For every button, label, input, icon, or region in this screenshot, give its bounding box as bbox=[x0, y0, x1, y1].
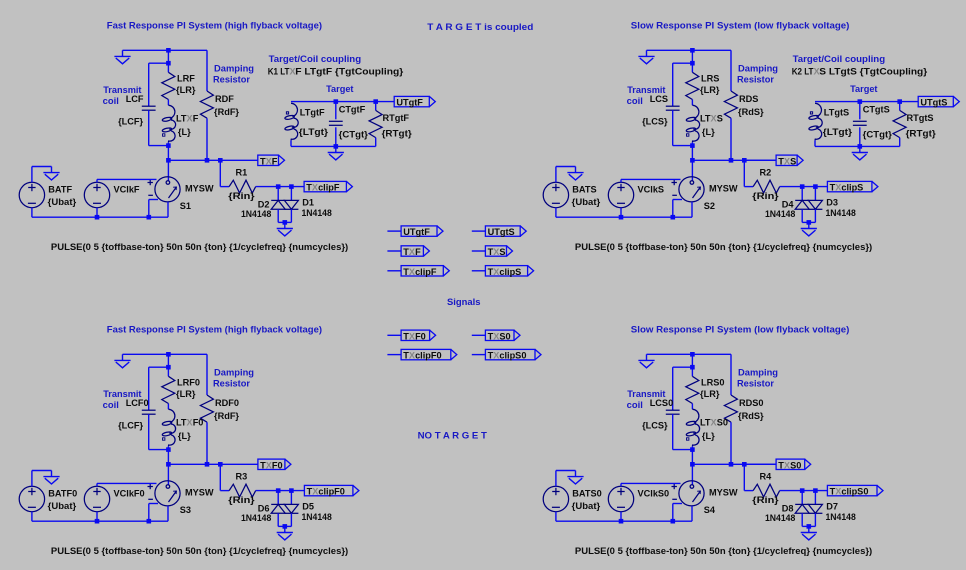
svg-text:S LTgtS {TgtCoupling}: S LTgtS {TgtCoupling} bbox=[819, 67, 927, 77]
svg-text:TXclipS0: TXclipS0 bbox=[488, 351, 527, 361]
net flag TXS bbox=[776, 155, 803, 165]
svg-text:K1 LT: K1 LT bbox=[268, 67, 290, 77]
wire bbox=[672, 110, 674, 145]
svg-text:Resistor: Resistor bbox=[737, 378, 774, 388]
svg-text:CTgtS: CTgtS bbox=[863, 104, 890, 114]
svg-text:RDF0: RDF0 bbox=[215, 398, 239, 408]
resistor R2 bbox=[753, 180, 780, 193]
svg-text:MYSW: MYSW bbox=[709, 183, 738, 193]
wire bbox=[556, 470, 576, 472]
node top junction bbox=[166, 352, 171, 357]
wire (target bottom) bbox=[291, 145, 376, 147]
svg-text:K2 LT: K2 LT bbox=[792, 67, 814, 77]
wire (target top) bbox=[291, 101, 376, 103]
inductor LTgtS bbox=[815, 103, 822, 140]
svg-text:D7: D7 bbox=[826, 502, 838, 512]
svg-text:Target: Target bbox=[326, 84, 353, 94]
svg-text:CTgtF: CTgtF bbox=[339, 104, 366, 114]
svg-text:UTgtF: UTgtF bbox=[396, 98, 423, 108]
junction bbox=[800, 488, 805, 493]
wire bbox=[691, 50, 693, 72]
voltage source BATF bbox=[19, 182, 44, 207]
wire bbox=[730, 354, 732, 395]
wire bbox=[96, 483, 98, 486]
wire bbox=[290, 491, 292, 505]
wire bbox=[899, 102, 901, 111]
resistor RDS bbox=[724, 91, 737, 118]
svg-text:1N4148: 1N4148 bbox=[302, 208, 332, 218]
inductor LTXF0 bbox=[168, 409, 175, 446]
svg-text:D8: D8 bbox=[782, 503, 794, 513]
wire bbox=[730, 422, 732, 464]
wire (switch control -) bbox=[149, 199, 158, 201]
junction bbox=[283, 524, 288, 529]
node top junction bbox=[690, 352, 695, 357]
svg-text:{RdF}: {RdF} bbox=[214, 411, 239, 421]
svg-text:{RdS}: {RdS} bbox=[738, 107, 764, 117]
junction bbox=[858, 99, 863, 104]
wire (tank output bus) bbox=[692, 463, 776, 465]
inductor LTXS0 bbox=[692, 409, 699, 446]
svg-text:{Rin}: {Rin} bbox=[752, 191, 779, 201]
svg-text:{Rin}: {Rin} bbox=[752, 495, 779, 505]
net flag UTgtF bbox=[394, 96, 435, 106]
wire bbox=[801, 491, 803, 505]
net flag TXF0 bbox=[258, 459, 291, 469]
resistor RTgtF bbox=[369, 110, 382, 137]
wire bbox=[555, 471, 557, 487]
wire to switch bbox=[167, 160, 169, 181]
svg-text:LTXS: LTXS bbox=[700, 114, 723, 124]
svg-text:1N4148: 1N4148 bbox=[241, 513, 271, 523]
junction bbox=[813, 488, 818, 493]
wire bbox=[206, 50, 208, 91]
svg-text:D4: D4 bbox=[782, 199, 795, 209]
svg-text:Target/Coil coupling: Target/Coil coupling bbox=[793, 54, 886, 64]
svg-text:LRS0: LRS0 bbox=[701, 377, 725, 387]
svg-text:TXclipF: TXclipF bbox=[403, 267, 437, 277]
wire bbox=[814, 187, 816, 201]
svg-text:MYSW: MYSW bbox=[709, 487, 738, 497]
svg-text:{LTgt}: {LTgt} bbox=[299, 127, 329, 137]
wire bbox=[148, 63, 150, 106]
ground (target) bbox=[852, 146, 868, 160]
junction bbox=[205, 462, 210, 467]
wire bbox=[673, 366, 693, 368]
svg-text:BATS0: BATS0 bbox=[572, 488, 601, 498]
wire bbox=[277, 187, 279, 201]
wire bbox=[31, 167, 33, 183]
svg-text:UTgtS: UTgtS bbox=[920, 98, 947, 108]
wire bbox=[859, 102, 861, 120]
resistor LRS bbox=[686, 72, 699, 99]
svg-text:TXF: TXF bbox=[403, 247, 421, 257]
svg-text:Target: Target bbox=[850, 84, 877, 94]
net flag TXS bbox=[472, 250, 486, 252]
wire (bottom bus) bbox=[32, 216, 168, 218]
resistor RDF0 bbox=[200, 395, 213, 422]
wire bbox=[335, 127, 337, 146]
wire bbox=[96, 208, 98, 218]
svg-text:LTXF: LTXF bbox=[176, 114, 199, 124]
svg-text:TXF0: TXF0 bbox=[260, 460, 283, 470]
svg-text:TXclipS: TXclipS bbox=[830, 183, 864, 193]
svg-text:VClkF: VClkF bbox=[114, 184, 140, 194]
capacitor LCF0 bbox=[142, 410, 156, 414]
svg-text:{CTgt}: {CTgt} bbox=[339, 130, 369, 140]
svg-text:PULSE(0 5 {toffbase-ton} 50n 5: PULSE(0 5 {toffbase-ton} 50n 50n {ton} {… bbox=[51, 242, 348, 252]
wire (switch control +) bbox=[97, 482, 157, 484]
net flag TXclipS0 bbox=[827, 485, 883, 495]
svg-text:Resistor: Resistor bbox=[213, 378, 250, 388]
svg-text:LTgtF: LTgtF bbox=[300, 107, 325, 117]
svg-text:{Ubat}: {Ubat} bbox=[572, 197, 601, 207]
svg-text:LTXF0: LTXF0 bbox=[176, 418, 203, 428]
wire bbox=[32, 166, 52, 168]
wire bbox=[899, 138, 901, 147]
svg-text:{L}: {L} bbox=[178, 431, 191, 441]
switch S3 (MYSW) bbox=[148, 481, 181, 506]
wire (switch control +) bbox=[621, 482, 681, 484]
wire bbox=[802, 221, 815, 223]
wire bbox=[149, 62, 169, 64]
svg-text:RDS0: RDS0 bbox=[739, 398, 764, 408]
resistor LRS0 bbox=[686, 376, 699, 403]
wire bbox=[620, 179, 622, 182]
ground (clamp) bbox=[801, 526, 817, 540]
wire bbox=[730, 50, 732, 91]
svg-text:MYSW: MYSW bbox=[185, 487, 214, 497]
wire to R2 bbox=[743, 160, 745, 186]
svg-text:VClkS0: VClkS0 bbox=[638, 488, 670, 498]
wire to switch bbox=[167, 464, 169, 485]
wire bbox=[673, 62, 693, 64]
svg-text:R3: R3 bbox=[236, 472, 248, 482]
svg-text:{RdS}: {RdS} bbox=[738, 411, 764, 421]
resistor R1 bbox=[229, 180, 256, 193]
net flag UTgtS bbox=[472, 230, 486, 232]
node top junction bbox=[690, 48, 695, 53]
svg-text:R2: R2 bbox=[760, 168, 772, 178]
junction bbox=[95, 215, 100, 220]
svg-text:BATF0: BATF0 bbox=[48, 488, 77, 498]
wire bbox=[167, 202, 169, 217]
diode D5 bbox=[284, 504, 298, 513]
junction bbox=[166, 143, 171, 148]
svg-text:{Ubat}: {Ubat} bbox=[572, 501, 601, 511]
junction bbox=[218, 462, 223, 467]
wire (target bottom) bbox=[815, 145, 900, 147]
wire to R4 bbox=[743, 464, 745, 490]
svg-text:{L}: {L} bbox=[178, 127, 191, 137]
svg-text:Fast Response PI System (high: Fast Response PI System (high flyback vo… bbox=[107, 324, 322, 334]
junction bbox=[283, 220, 288, 225]
wire bbox=[167, 100, 169, 106]
diode D2 bbox=[271, 200, 285, 209]
svg-text:NO T A R G E T: NO T A R G E T bbox=[418, 431, 488, 441]
wire bbox=[556, 166, 576, 168]
junction bbox=[166, 365, 171, 370]
resistor LRF bbox=[162, 72, 175, 99]
svg-text:BATF: BATF bbox=[48, 184, 72, 194]
svg-text:UTgtF: UTgtF bbox=[403, 227, 430, 237]
net flag TXclipF bbox=[387, 270, 401, 272]
wire bbox=[31, 512, 33, 522]
svg-text:VClkF0: VClkF0 bbox=[114, 488, 145, 498]
voltage source BATS bbox=[543, 182, 568, 207]
svg-text:{LR}: {LR} bbox=[700, 389, 720, 399]
svg-text:LCF: LCF bbox=[126, 94, 144, 104]
wire bbox=[148, 200, 150, 218]
svg-text:PULSE(0 5 {toffbase-ton} 50n 5: PULSE(0 5 {toffbase-ton} 50n 50n {ton} {… bbox=[51, 546, 348, 556]
wire bbox=[801, 513, 803, 526]
wire bbox=[900, 101, 919, 103]
junction bbox=[729, 462, 734, 467]
wire bbox=[278, 221, 291, 223]
svg-text:1N4148: 1N4148 bbox=[826, 208, 856, 218]
svg-text:D5: D5 bbox=[302, 502, 314, 512]
junction bbox=[897, 99, 902, 104]
svg-text:coil: coil bbox=[627, 96, 643, 106]
svg-text:TXS: TXS bbox=[488, 247, 506, 257]
voltage source VClkS bbox=[608, 182, 633, 207]
wire bbox=[206, 354, 208, 395]
net flag TXclipS0 bbox=[472, 354, 486, 356]
junction bbox=[807, 524, 812, 529]
svg-text:RTgtS: RTgtS bbox=[907, 113, 934, 123]
net flag TXclipF bbox=[304, 181, 352, 191]
wire bbox=[277, 491, 279, 505]
svg-text:Damping: Damping bbox=[214, 367, 254, 377]
ground (battery) bbox=[43, 471, 59, 485]
junction bbox=[690, 143, 695, 148]
wire to R3 bbox=[219, 464, 221, 490]
wire bbox=[672, 200, 674, 218]
svg-text:{LTgt}: {LTgt} bbox=[823, 127, 853, 137]
wire bbox=[691, 100, 693, 106]
wire bbox=[555, 512, 557, 522]
wire bbox=[620, 512, 622, 522]
ground (top rail) bbox=[114, 354, 130, 368]
capacitor LCS bbox=[666, 106, 680, 110]
wire to switch bbox=[691, 160, 693, 181]
svg-text:Target/Coil coupling: Target/Coil coupling bbox=[269, 54, 362, 64]
svg-text:TXS0: TXS0 bbox=[488, 331, 511, 341]
junction bbox=[742, 158, 747, 163]
wire bbox=[691, 404, 693, 410]
svg-text:LCF0: LCF0 bbox=[126, 398, 149, 408]
diode D6 bbox=[271, 504, 285, 513]
wire bbox=[744, 490, 753, 492]
wire bbox=[672, 414, 674, 449]
wire bbox=[123, 49, 208, 51]
svg-text:{LR}: {LR} bbox=[700, 85, 720, 95]
svg-text:VClkS: VClkS bbox=[638, 184, 665, 194]
resistor RDF bbox=[200, 91, 213, 118]
wire bbox=[167, 404, 169, 410]
svg-text:S1: S1 bbox=[180, 201, 191, 211]
junction bbox=[690, 61, 695, 66]
junction bbox=[729, 158, 734, 163]
wire (bottom bus) bbox=[32, 520, 168, 522]
wire (switch control +) bbox=[97, 178, 157, 180]
wire bbox=[290, 513, 292, 526]
diode D4 bbox=[795, 200, 809, 209]
net flag TXF0 bbox=[387, 334, 401, 336]
wire bbox=[376, 101, 395, 103]
wire bbox=[814, 209, 816, 222]
wire bbox=[375, 102, 377, 111]
svg-text:1N4148: 1N4148 bbox=[241, 209, 271, 219]
wire bbox=[691, 446, 693, 464]
wire bbox=[277, 209, 279, 222]
svg-text:1N4148: 1N4148 bbox=[826, 512, 856, 522]
junction bbox=[619, 215, 624, 220]
wire to switch bbox=[691, 464, 693, 485]
svg-text:Resistor: Resistor bbox=[737, 74, 774, 84]
svg-text:{Ubat}: {Ubat} bbox=[48, 501, 77, 511]
diode D7 bbox=[808, 504, 822, 513]
net flag UTgtF bbox=[387, 230, 401, 232]
wire bbox=[673, 449, 693, 451]
svg-text:MYSW: MYSW bbox=[185, 183, 214, 193]
wire bbox=[290, 140, 292, 146]
net flag TXS0 bbox=[472, 334, 486, 336]
inductor LTgtF bbox=[291, 103, 298, 140]
ground (clamp) bbox=[277, 222, 293, 236]
wire (tank output bus) bbox=[168, 463, 257, 465]
svg-text:TXclipF: TXclipF bbox=[306, 183, 340, 193]
svg-text:LRF: LRF bbox=[177, 73, 195, 83]
svg-text:PULSE(0 5 {toffbase-ton} 50n 5: PULSE(0 5 {toffbase-ton} 50n 50n {ton} {… bbox=[575, 242, 872, 252]
wire bbox=[335, 102, 337, 120]
resistor R3 bbox=[229, 484, 256, 497]
wire to TXS flag bbox=[744, 159, 776, 161]
diode D1 bbox=[284, 200, 298, 209]
junction bbox=[218, 158, 223, 163]
svg-text:{RTgt}: {RTgt} bbox=[906, 129, 937, 139]
svg-text:TXS: TXS bbox=[778, 156, 796, 166]
junction bbox=[690, 158, 695, 163]
wire (bottom bus) bbox=[556, 520, 692, 522]
capacitor LCF bbox=[142, 106, 156, 110]
wire bbox=[31, 471, 33, 487]
junction bbox=[334, 144, 339, 149]
svg-text:BATS: BATS bbox=[572, 184, 596, 194]
wire to R1 bbox=[219, 160, 221, 186]
ground (battery) bbox=[567, 167, 583, 181]
wire bbox=[290, 187, 292, 201]
svg-text:coil: coil bbox=[103, 96, 119, 106]
wire (target top) bbox=[815, 101, 900, 103]
junction bbox=[166, 158, 171, 163]
wire bbox=[691, 142, 693, 160]
wire bbox=[256, 186, 304, 188]
inductor LTXS bbox=[692, 105, 699, 142]
svg-text:LCS0: LCS0 bbox=[650, 398, 674, 408]
svg-text:{RTgt}: {RTgt} bbox=[382, 129, 413, 139]
voltage source BATF0 bbox=[19, 486, 44, 511]
wire bbox=[691, 506, 693, 521]
wire bbox=[691, 354, 693, 376]
wire bbox=[555, 167, 557, 183]
net flag TXclipF0 bbox=[304, 485, 359, 495]
junction bbox=[373, 99, 378, 104]
voltage source BATS0 bbox=[543, 486, 568, 511]
wire bbox=[691, 202, 693, 217]
resistor LRF0 bbox=[162, 376, 175, 403]
net flag TXS0 bbox=[776, 459, 811, 469]
wire bbox=[167, 446, 169, 464]
switch S2 (MYSW) bbox=[672, 177, 705, 202]
junction bbox=[690, 462, 695, 467]
inductor LTXF bbox=[168, 105, 175, 142]
svg-text:Slow Response PI System (low f: Slow Response PI System (low flyback vol… bbox=[631, 324, 850, 334]
svg-text:{LCS}: {LCS} bbox=[642, 421, 668, 431]
wire bbox=[149, 366, 169, 368]
svg-text:{LR}: {LR} bbox=[176, 85, 196, 95]
svg-text:TXS0: TXS0 bbox=[778, 460, 801, 470]
svg-text:RDF: RDF bbox=[215, 94, 234, 104]
wire bbox=[647, 353, 732, 355]
svg-text:Damping: Damping bbox=[214, 63, 254, 73]
net flag TXclipS bbox=[472, 270, 486, 272]
resistor RDS0 bbox=[724, 395, 737, 422]
voltage source VClkF bbox=[84, 182, 109, 207]
svg-text:Resistor: Resistor bbox=[213, 74, 250, 84]
wire bbox=[123, 353, 208, 355]
ground (top rail) bbox=[114, 50, 130, 64]
wire bbox=[801, 187, 803, 201]
diode D8 bbox=[795, 504, 809, 513]
junction bbox=[858, 144, 863, 149]
junction bbox=[671, 519, 676, 524]
voltage source VClkF0 bbox=[84, 486, 109, 511]
svg-text:{L}: {L} bbox=[702, 127, 715, 137]
svg-text:D2: D2 bbox=[258, 199, 270, 209]
ground (top rail) bbox=[638, 354, 654, 368]
svg-text:Damping: Damping bbox=[738, 63, 778, 73]
switch S4 (MYSW) bbox=[672, 481, 705, 506]
wire bbox=[802, 525, 815, 527]
wire bbox=[278, 525, 291, 527]
wire bbox=[256, 490, 304, 492]
svg-text:1N4148: 1N4148 bbox=[302, 512, 332, 522]
junction bbox=[276, 488, 281, 493]
wire bbox=[167, 354, 169, 376]
svg-text:1N4148: 1N4148 bbox=[765, 513, 795, 523]
net flag TXclipF0 bbox=[387, 354, 401, 356]
junction bbox=[334, 99, 339, 104]
diode D3 bbox=[808, 200, 822, 209]
svg-text:S2: S2 bbox=[704, 201, 715, 211]
svg-text:Fast Response PI System (high: Fast Response PI System (high flyback vo… bbox=[107, 20, 322, 30]
wire bbox=[31, 208, 33, 218]
node top junction bbox=[166, 48, 171, 53]
svg-text:{CTgt}: {CTgt} bbox=[863, 130, 893, 140]
svg-text:coil: coil bbox=[103, 400, 119, 410]
svg-text:coil: coil bbox=[627, 400, 643, 410]
junction bbox=[289, 184, 294, 189]
wire to TXS0 flag bbox=[744, 463, 776, 465]
svg-text:{LCF}: {LCF} bbox=[118, 421, 143, 431]
wire bbox=[780, 490, 828, 492]
wire (switch control +) bbox=[621, 178, 681, 180]
wire bbox=[96, 512, 98, 522]
junction bbox=[147, 519, 152, 524]
junction bbox=[671, 215, 676, 220]
wire bbox=[220, 490, 229, 492]
